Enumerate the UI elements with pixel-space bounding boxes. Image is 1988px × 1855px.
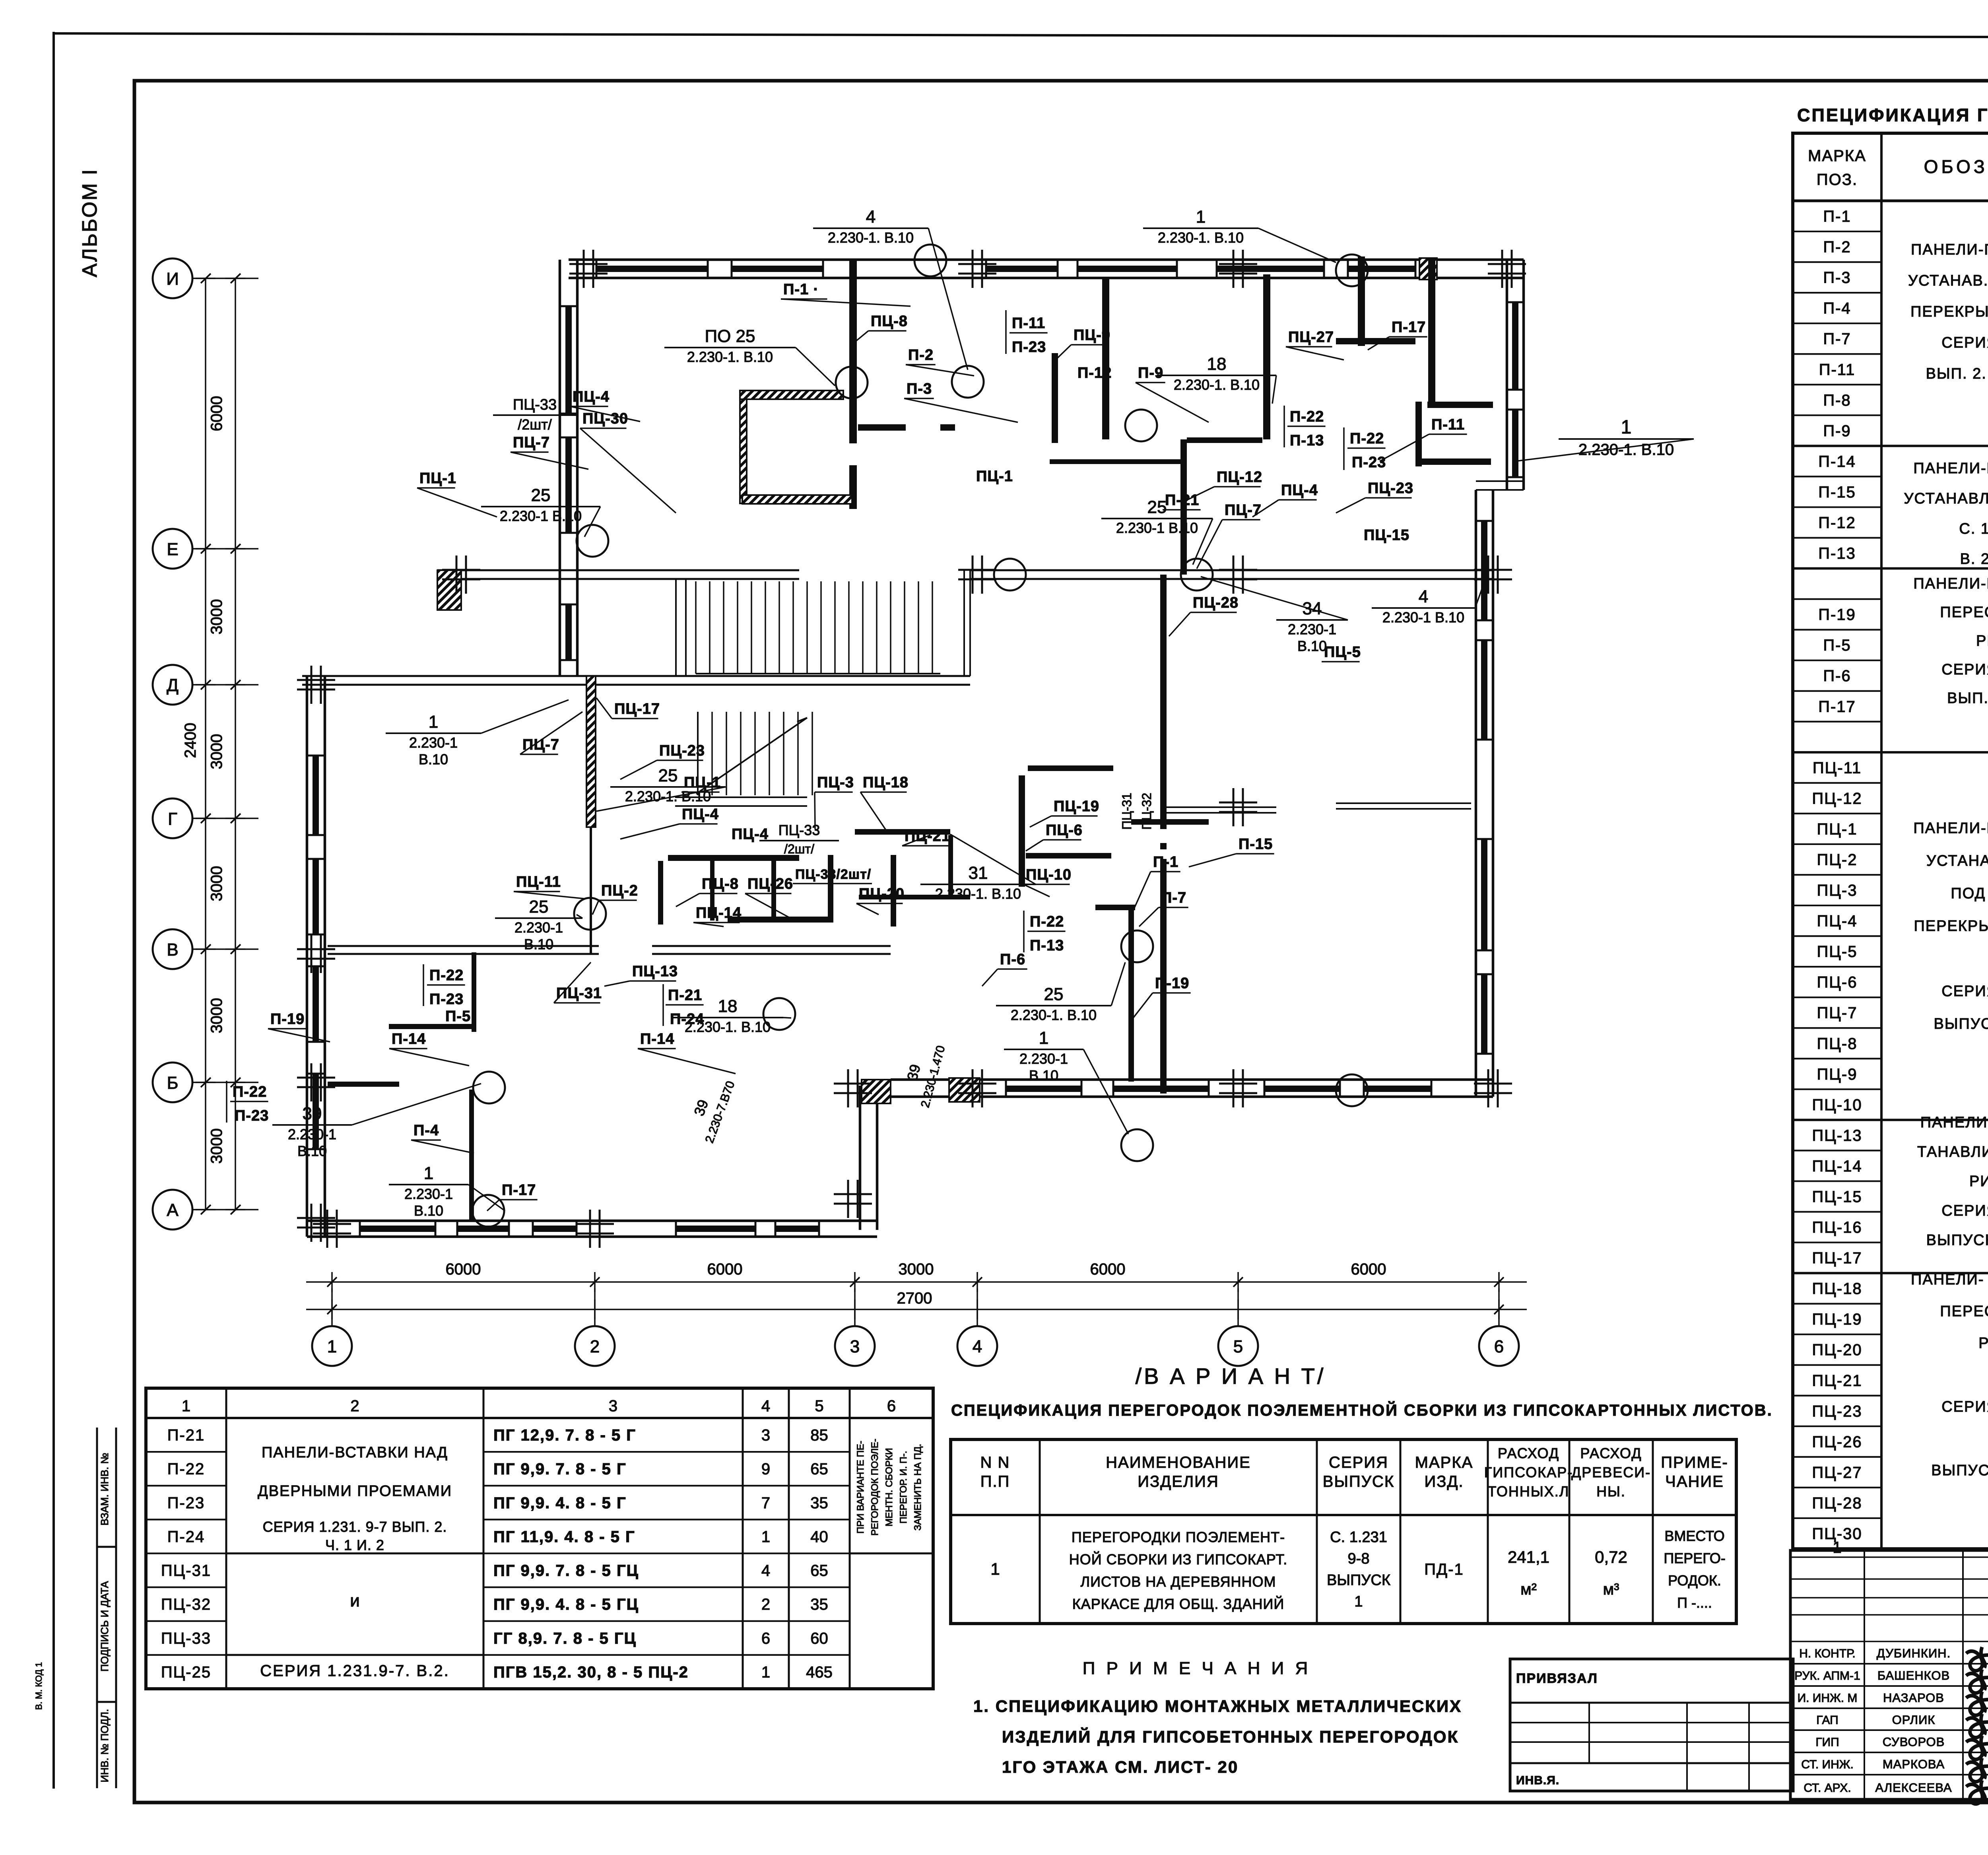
- svg-text:СПЕЦИФИКАЦИЯ ПЕРЕГОРОДОК ПОЭЛЕ: СПЕЦИФИКАЦИЯ ПЕРЕГОРОДОК ПОЭЛЕМЕНТНОЙ СБ…: [951, 1401, 1773, 1419]
- svg-text:ПЦ-21: ПЦ-21: [1812, 1372, 1862, 1389]
- svg-text:ПЦ-1: ПЦ-1: [976, 468, 1013, 485]
- svg-text:ПЦ-1: ПЦ-1: [1817, 820, 1858, 838]
- svg-text:4: 4: [973, 1337, 982, 1356]
- svg-text:ПЦ-4: ПЦ-4: [1817, 913, 1858, 930]
- svg-text:СЕРИЯ 1.231.9-7. В.2.: СЕРИЯ 1.231.9-7. В.2.: [260, 1662, 449, 1680]
- svg-text:СЕРИЯ 1.231. 9-7: СЕРИЯ 1.231. 9-7: [1941, 1399, 1988, 1415]
- svg-text:6000: 6000: [208, 396, 225, 431]
- svg-text:ВМЕСТО: ВМЕСТО: [1664, 1528, 1724, 1544]
- svg-text:ИЗДЕЛИЙ ДЛЯ ГИПСОБЕТОННЫХ ПЕРЕ: ИЗДЕЛИЙ ДЛЯ ГИПСОБЕТОННЫХ ПЕРЕГОРОДОК: [1002, 1727, 1459, 1746]
- svg-text:2700: 2700: [897, 1290, 932, 1307]
- svg-text:2.230-1. В.10: 2.230-1. В.10: [828, 229, 914, 246]
- svg-text:18: 18: [1207, 354, 1227, 374]
- svg-text:ПЦ-23: ПЦ-23: [1368, 480, 1413, 497]
- C-room hatched walls: [740, 390, 843, 399]
- svg-text:1: 1: [1833, 1539, 1841, 1556]
- svg-text:П-13: П-13: [1818, 545, 1856, 562]
- svg-text:В. 2 Ч. 1 И 2.: В. 2 Ч. 1 И 2.: [1960, 551, 1988, 567]
- svg-text:ДВЕРНЫМИ ПРОЕМАМИ: ДВЕРНЫМИ ПРОЕМАМИ: [258, 1483, 452, 1500]
- svg-text:ПГВ 15,2. 30, 8 - 5 ПЦ-2: ПГВ 15,2. 30, 8 - 5 ПЦ-2: [493, 1663, 689, 1681]
- svg-text:2.230-1: 2.230-1: [288, 1126, 336, 1142]
- svg-text:В.10: В.10: [419, 751, 448, 767]
- svg-text:ВЗАМ. ИНВ. №: ВЗАМ. ИНВ. №: [99, 1453, 111, 1526]
- svg-text:П-22: П-22: [1350, 430, 1384, 447]
- left dimension labels: [182, 396, 225, 1164]
- svg-text:П-13: П-13: [1290, 432, 1324, 449]
- svg-text:ПРИВЯЗАЛ: ПРИВЯЗАЛ: [1516, 1671, 1598, 1686]
- bottom dimension lines: [306, 1281, 1527, 1283]
- main central wall vertical: [1160, 575, 1167, 829]
- svg-text:4: 4: [761, 1562, 770, 1579]
- svg-text:ПЦ-14: ПЦ-14: [1812, 1158, 1862, 1175]
- svg-text:АЛЬБОМ I: АЛЬБОМ I: [78, 168, 101, 277]
- svg-text:ПОДПИСЬ И ДАТА: ПОДПИСЬ И ДАТА: [99, 1581, 111, 1672]
- svg-text:ПГ 9,9. 4. 8 - 5 ГЦ: ПГ 9,9. 4. 8 - 5 ГЦ: [493, 1596, 639, 1613]
- svg-text:П-22: П-22: [429, 967, 464, 984]
- svg-text:ПЦ-25: ПЦ-25: [161, 1663, 211, 1681]
- svg-text:ПЦ-7: ПЦ-7: [522, 736, 559, 753]
- spec obozn section B: [1904, 460, 1988, 567]
- svg-text:35: 35: [810, 1596, 828, 1613]
- svg-text:ПЦ-33: ПЦ-33: [513, 396, 557, 413]
- svg-text:ПЦ-18: ПЦ-18: [1812, 1280, 1862, 1298]
- left table rows text: [161, 1427, 833, 1681]
- svg-text:6: 6: [761, 1630, 770, 1647]
- svg-text:В.10: В.10: [297, 1143, 327, 1159]
- svg-text:ПЦ-10: ПЦ-10: [1026, 866, 1072, 883]
- svg-text:П-23: П-23: [1012, 339, 1046, 355]
- svg-text:ПЦ-10: ПЦ-10: [1812, 1096, 1862, 1114]
- svg-text:СТ. АРХ.: СТ. АРХ.: [1804, 1781, 1851, 1795]
- svg-text:ЧАНИЕ: ЧАНИЕ: [1665, 1473, 1724, 1490]
- svg-text:3000: 3000: [208, 599, 225, 635]
- svg-text:ГИПСОКАР-: ГИПСОКАР-: [1484, 1464, 1573, 1480]
- svg-text:2400: 2400: [182, 723, 199, 758]
- svg-text:34: 34: [1303, 599, 1322, 618]
- svg-text:ПРИ ВАРИАНТЕ ПЕ-: ПРИ ВАРИАНТЕ ПЕ-: [855, 1441, 866, 1534]
- svg-text:П Р И М Е Ч А Н И Я: П Р И М Е Ч А Н И Я: [1083, 1659, 1311, 1678]
- svg-text:ЗАМЕНИТЬ НА ПД.: ЗАМЕНИТЬ НА ПД.: [912, 1444, 923, 1531]
- svg-text:СПЕЦИФИКАЦИЯ ГИПСОБЕТОННЫХ: СПЕЦИФИКАЦИЯ ГИПСОБЕТОННЫХ ПАНЕЛЕЙ ПЕРЕГ…: [1797, 105, 1988, 125]
- svg-text:ВЫПУСК 2 Ч. 1 И 2.: ВЫПУСК 2 Ч. 1 И 2.: [1934, 1016, 1988, 1032]
- svg-text:Д: Д: [167, 676, 179, 695]
- svg-text:П-9: П-9: [1138, 365, 1163, 381]
- svg-text:1: 1: [429, 712, 438, 732]
- svg-text:ПЦ-15: ПЦ-15: [1812, 1188, 1862, 1206]
- bottom-left wall: [307, 1220, 877, 1222]
- svg-text:П-22: П-22: [1290, 408, 1324, 425]
- svg-text:П-5: П-5: [445, 1008, 471, 1025]
- svg-text:ПЦ-30: ПЦ-30: [582, 410, 628, 427]
- svg-text:П-23: П-23: [429, 991, 464, 1008]
- svg-text:ПЦ-32: ПЦ-32: [1140, 793, 1154, 830]
- svg-text:ПАНЕЛИ-ПЕРЕГОРОДОК: ПАНЕЛИ-ПЕРЕГОРОДОК: [1913, 460, 1988, 477]
- svg-text:1: 1: [1354, 1593, 1363, 1610]
- svg-text:П-19: П-19: [270, 1011, 305, 1028]
- svg-text:/В А Р И А Н Т/: /В А Р И А Н Т/: [1136, 1364, 1326, 1389]
- svg-text:6: 6: [887, 1397, 896, 1415]
- svg-text:3: 3: [609, 1397, 617, 1415]
- svg-text:П-23: П-23: [167, 1494, 205, 1512]
- svg-text:ПЦ-16: ПЦ-16: [1812, 1219, 1862, 1236]
- svg-text:/2шт/: /2шт/: [784, 842, 814, 856]
- svg-text:В: В: [167, 940, 178, 960]
- svg-text:ПЦ-15: ПЦ-15: [1364, 527, 1409, 544]
- svg-text:П-4: П-4: [414, 1122, 439, 1139]
- svg-text:В.10: В.10: [1029, 1067, 1058, 1084]
- svg-text:ПЦ-3: ПЦ-3: [1817, 882, 1858, 899]
- svg-text:2.230-1: 2.230-1: [409, 734, 458, 751]
- spec obozn section A: [1908, 241, 1988, 382]
- svg-text:ПЦ-13: ПЦ-13: [1812, 1127, 1862, 1144]
- svg-text:ОБОЗНАЧЕНИЕ: ОБОЗНАЧЕНИЕ: [1924, 156, 1988, 177]
- svg-text:П-11: П-11: [1012, 315, 1045, 332]
- svg-text:ГИП: ГИП: [1815, 1736, 1839, 1749]
- svg-text:П-6: П-6: [1000, 951, 1025, 968]
- partition bars top-mid: [1052, 353, 1058, 443]
- svg-text:2: 2: [761, 1596, 770, 1613]
- svg-text:6000: 6000: [707, 1261, 743, 1278]
- svg-text:ПЦ-31: ПЦ-31: [161, 1562, 211, 1579]
- svg-text:МАРКОВА: МАРКОВА: [1883, 1757, 1945, 1771]
- E-row wall left part: [437, 569, 799, 571]
- svg-text:ПЦ-1: ПЦ-1: [684, 774, 721, 791]
- svg-text:РИГЕЛЬ: РИГЕЛЬ: [1978, 1335, 1988, 1352]
- svg-text:6000: 6000: [446, 1261, 481, 1278]
- svg-text:РУК. АПМ-1: РУК. АПМ-1: [1794, 1669, 1860, 1682]
- svg-text:2.230-1 В.10: 2.230-1 В.10: [500, 508, 582, 524]
- svg-text:25: 25: [1147, 497, 1167, 517]
- svg-text:П-13: П-13: [1030, 937, 1064, 954]
- svg-text:2.230-1. В.10: 2.230-1. В.10: [1174, 377, 1260, 393]
- svg-text:ПЦ-31: ПЦ-31: [1120, 793, 1134, 830]
- svg-text:40: 40: [810, 1528, 828, 1546]
- svg-text:РИГЕЛЬ.: РИГЕЛЬ.: [1976, 633, 1988, 649]
- svg-text:П-1: П-1: [1153, 854, 1178, 870]
- outer border left: [52, 32, 55, 1789]
- svg-text:1: 1: [182, 1397, 190, 1415]
- svg-text:В. М. КОД 1: В. М. КОД 1: [34, 1662, 44, 1710]
- svg-text:ПЦ-14: ПЦ-14: [696, 905, 742, 921]
- west inner wall of top block continuation: [559, 575, 561, 676]
- svg-text:П-1 ·: П-1 ·: [783, 281, 819, 298]
- svg-text:м²: м²: [1520, 1581, 1537, 1598]
- sanitary block bars: [668, 855, 799, 861]
- svg-text:Б: Б: [167, 1073, 179, 1093]
- svg-text:ПЦ-8: ПЦ-8: [871, 313, 908, 330]
- svg-text:ПЦ-12: ПЦ-12: [1217, 469, 1262, 486]
- svg-text:ПЦ-5: ПЦ-5: [1817, 943, 1858, 961]
- svg-text:П-2: П-2: [1823, 239, 1851, 256]
- plan labels mid-left: [268, 698, 1036, 1219]
- svg-text:ПЦ-33/2шт/: ПЦ-33/2шт/: [795, 867, 871, 882]
- right wall lower: [1475, 490, 1477, 1097]
- svg-text:1: 1: [761, 1528, 770, 1546]
- top block right wall upper: [1506, 260, 1508, 490]
- E-row wall right part: [970, 569, 1493, 571]
- svg-text:ПЦ-7: ПЦ-7: [1817, 1004, 1858, 1022]
- bottom dimension labels: [446, 1261, 1386, 1307]
- svg-text:П-3: П-3: [1823, 269, 1851, 287]
- svg-text:25: 25: [529, 897, 549, 917]
- svg-text:ИНВ. № ПОДЛ.: ИНВ. № ПОДЛ.: [99, 1709, 111, 1783]
- svg-text:СУВОРОВ: СУВОРОВ: [1883, 1735, 1945, 1749]
- svg-text:ПЦ-18: ПЦ-18: [863, 774, 909, 791]
- svg-text:2.230-1: 2.230-1: [1019, 1051, 1068, 1067]
- svg-text:ПЕРЕКРЫТИЯ НЭТ-3,3М: ПЕРЕКРЫТИЯ НЭТ-3,3М: [1914, 918, 1988, 934]
- svg-text:П-1: П-1: [1823, 208, 1851, 225]
- svg-text:ПОД ПЛИТАМИ: ПОД ПЛИТАМИ: [1951, 885, 1988, 902]
- svg-text:ПЦ-2: ПЦ-2: [1817, 851, 1858, 868]
- C-room side bars: [858, 424, 906, 431]
- svg-text:1: 1: [1039, 1028, 1048, 1048]
- partition bars top-left block: [849, 260, 857, 443]
- svg-text:/2шт/: /2шт/: [518, 416, 551, 433]
- svg-text:3: 3: [850, 1337, 860, 1356]
- svg-text:СЕРИЯ 1.231. 9-7: СЕРИЯ 1.231. 9-7: [1941, 334, 1988, 351]
- svg-text:2: 2: [590, 1337, 600, 1356]
- stair lower walls: [675, 796, 807, 798]
- svg-text:4: 4: [761, 1397, 770, 1415]
- grid axis circles bottom: [312, 1288, 1519, 1366]
- svg-text:СЕРИЯ 1.231. 9-7 ВЫП. 2.: СЕРИЯ 1.231. 9-7 ВЫП. 2.: [263, 1519, 447, 1535]
- svg-text:И: И: [166, 269, 179, 289]
- left dimension lines: [205, 278, 206, 1210]
- svg-text:ПЕРЕКРЫТИЯ НЭП-3,3М.: ПЕРЕКРЫТИЯ НЭП-3,3М.: [1910, 303, 1988, 320]
- svg-text:ПОЗ.: ПОЗ.: [1817, 171, 1858, 188]
- svg-text:П-19: П-19: [1155, 975, 1189, 992]
- B-row wall right segment: [652, 945, 891, 947]
- svg-text:ПЦ-17: ПЦ-17: [1812, 1249, 1862, 1267]
- svg-text:31: 31: [969, 863, 988, 883]
- svg-text:ЛИСТОВ НА ДЕРЕВЯННОМ: ЛИСТОВ НА ДЕРЕВЯННОМ: [1081, 1573, 1276, 1590]
- svg-text:ПГ 9,9. 4. 8 - 5 Г: ПГ 9,9. 4. 8 - 5 Г: [493, 1494, 627, 1512]
- stamp signature table: [1790, 1550, 1988, 1799]
- svg-text:ИНВ.Я.: ИНВ.Я.: [1516, 1774, 1559, 1787]
- spec obozn section E: [1917, 1114, 1988, 1249]
- axis ticks on walls: [583, 250, 585, 288]
- svg-text:В.10: В.10: [1297, 638, 1327, 654]
- svg-text:ПЦ-11: ПЦ-11: [516, 874, 561, 890]
- spec table rows text: [1812, 207, 1988, 1543]
- svg-text:ПАНЕЛИ-ВСТАВКИ УС-: ПАНЕЛИ-ВСТАВКИ УС-: [1920, 1114, 1988, 1131]
- svg-text:ПЦ-23: ПЦ-23: [1812, 1402, 1862, 1420]
- svg-text:СЕРИЯ 1.231. 9-7: СЕРИЯ 1.231. 9-7: [1941, 983, 1988, 1000]
- svg-text:ПЦ-32: ПЦ-32: [161, 1596, 211, 1613]
- svg-text:39: 39: [303, 1104, 322, 1123]
- svg-text:ПЦ-6: ПЦ-6: [1817, 974, 1858, 991]
- svg-text:В.10: В.10: [414, 1202, 443, 1219]
- svg-text:ПЦ-7: ПЦ-7: [1225, 502, 1262, 519]
- svg-text:ПЦ-33: ПЦ-33: [779, 822, 820, 838]
- svg-text:Н. КОНТР.: Н. КОНТР.: [1799, 1647, 1855, 1660]
- svg-text:18: 18: [718, 996, 738, 1016]
- svg-text:ПЕРЕГО-: ПЕРЕГО-: [1664, 1550, 1725, 1566]
- svg-text:ПЦ-27: ПЦ-27: [1288, 329, 1334, 346]
- svg-text:3000: 3000: [208, 866, 225, 901]
- svg-text:ПЦ-27: ПЦ-27: [1812, 1464, 1862, 1481]
- svg-text:П-21: П-21: [1165, 492, 1199, 509]
- svg-text:П-8: П-8: [1823, 392, 1851, 409]
- svg-text:1: 1: [990, 1560, 1000, 1578]
- svg-text:35: 35: [810, 1494, 828, 1512]
- svg-text:МАРКА: МАРКА: [1415, 1454, 1474, 1471]
- svg-text:П-22: П-22: [1030, 913, 1064, 930]
- svg-text:С. 1.231: С. 1.231: [1330, 1529, 1387, 1546]
- svg-text:ВЫП. 2. Ч. 1 И 2: ВЫП. 2. Ч. 1 И 2: [1947, 690, 1988, 707]
- stair arrow: [700, 718, 807, 791]
- svg-text:ТОННЫХ.Л: ТОННЫХ.Л: [1488, 1483, 1570, 1500]
- spec obozn section D: [1913, 820, 1988, 1032]
- D-row wall: [302, 675, 970, 677]
- svg-text:ПЦ-6: ПЦ-6: [1046, 822, 1083, 839]
- svg-text:2.230-1: 2.230-1: [404, 1186, 453, 1202]
- svg-text:П-14: П-14: [640, 1031, 674, 1047]
- svg-text:РОДОК.: РОДОК.: [1668, 1572, 1721, 1589]
- spec table grid: [1793, 133, 1988, 1549]
- svg-text:465: 465: [806, 1663, 833, 1681]
- svg-text:2.230-1 В.10: 2.230-1 В.10: [1116, 520, 1198, 536]
- svg-text:9: 9: [761, 1461, 770, 1478]
- svg-text:241,1: 241,1: [1508, 1548, 1549, 1566]
- top wall: [569, 258, 1524, 261]
- svg-text:25: 25: [531, 486, 551, 505]
- top block left wall: [559, 260, 561, 575]
- svg-text:П-11: П-11: [1819, 361, 1856, 379]
- svg-text:5: 5: [815, 1397, 823, 1415]
- svg-text:КАРКАСЕ ДЛЯ ОБЩ. ЗДАНИЙ: КАРКАСЕ ДЛЯ ОБЩ. ЗДАНИЙ: [1072, 1595, 1284, 1612]
- svg-text:НАИМЕНОВАНИЕ: НАИМЕНОВАНИЕ: [1106, 1454, 1251, 1471]
- grid axis circles left: [153, 258, 258, 1230]
- svg-text:2.230-1 В.10: 2.230-1 В.10: [1382, 609, 1464, 625]
- left block west wall: [306, 676, 309, 1237]
- svg-text:СТ. ИНЖ.: СТ. ИНЖ.: [1801, 1758, 1854, 1771]
- svg-text:НОЙ СБОРКИ ИЗ ГИПСОКАРТ.: НОЙ СБОРКИ ИЗ ГИПСОКАРТ.: [1069, 1551, 1287, 1568]
- svg-text:ПЦ-20: ПЦ-20: [1812, 1341, 1862, 1359]
- svg-text:N N: N N: [980, 1454, 1010, 1471]
- svg-text:ПО 25: ПО 25: [705, 326, 755, 346]
- svg-text:м³: м³: [1603, 1581, 1619, 1598]
- svg-text:2.230-1. В.10: 2.230-1. В.10: [1158, 229, 1244, 246]
- left table obozn merged: [258, 1444, 452, 1680]
- svg-text:ПЦ-8: ПЦ-8: [702, 876, 739, 892]
- svg-text:П-4: П-4: [1823, 300, 1851, 317]
- variant table grid: [951, 1439, 1736, 1624]
- lower mid partition P-19: [1128, 907, 1134, 1082]
- svg-text:ВЫПУСК: ВЫПУСК: [1323, 1473, 1394, 1490]
- svg-text:ПАНЕЛИ-ВСТАВКИ НАД: ПАНЕЛИ-ВСТАВКИ НАД: [262, 1444, 448, 1461]
- svg-text:ВЫПУСК: ВЫПУСК: [1327, 1572, 1390, 1589]
- B-row wall: [328, 945, 599, 947]
- svg-text:0,72: 0,72: [1595, 1548, 1627, 1566]
- spec obozn section C: [1913, 575, 1988, 707]
- svg-text:2.230-1: 2.230-1: [514, 919, 563, 936]
- svg-text:ПГ 12,9. 7. 8 - 5 Г: ПГ 12,9. 7. 8 - 5 Г: [493, 1427, 636, 1444]
- svg-text:25: 25: [1044, 985, 1064, 1004]
- right wall jog: [1476, 480, 1524, 482]
- svg-text:П-24: П-24: [167, 1528, 205, 1546]
- svg-text:П-22: П-22: [167, 1461, 205, 1478]
- left attribute strip: [96, 1428, 98, 1788]
- svg-text:ПГ 9,9. 7. 8 - 5 ГЦ: ПГ 9,9. 7. 8 - 5 ГЦ: [493, 1562, 639, 1579]
- svg-text:МЕНТН. СБОРКИ: МЕНТН. СБОРКИ: [884, 1448, 895, 1526]
- svg-text:П-7: П-7: [1161, 890, 1186, 906]
- svg-text:ИЗДЕЛИЯ: ИЗДЕЛИЯ: [1138, 1473, 1219, 1490]
- svg-text:ПЦ-26: ПЦ-26: [747, 876, 793, 892]
- variant header text: [980, 1445, 1728, 1500]
- svg-text:ПАНЕЛИ-ПЕРЕГОРОДОК: ПАНЕЛИ-ПЕРЕГОРОДОК: [1913, 820, 1988, 837]
- svg-text:4: 4: [866, 207, 876, 227]
- svg-text:ПЦ-5: ПЦ-5: [1324, 644, 1361, 660]
- leader circles: [914, 245, 946, 276]
- svg-text:ГГ 8,9. 7. 8 - 5 ГЦ: ГГ 8,9. 7. 8 - 5 ГЦ: [493, 1630, 637, 1647]
- plan labels lower-left interior: [227, 1081, 269, 1124]
- left table grid: [146, 1388, 933, 1689]
- svg-text:2.230-1. В.10: 2.230-1. В.10: [935, 886, 1021, 902]
- stamp left subtable: [1510, 1659, 1793, 1791]
- lower-left partitions: [469, 1090, 474, 1221]
- svg-text:5: 5: [1233, 1337, 1243, 1356]
- svg-text:ПЦ-23: ПЦ-23: [659, 742, 705, 759]
- svg-text:П-2: П-2: [908, 347, 934, 363]
- signatures scribbles: [1966, 1647, 1988, 1804]
- svg-text:ДРЕВЕСИ-: ДРЕВЕСИ-: [1571, 1464, 1651, 1480]
- svg-text:П-12: П-12: [1077, 365, 1112, 381]
- svg-text:1: 1: [1196, 207, 1206, 227]
- svg-text:АЛЕКСЕЕВА: АЛЕКСЕЕВА: [1875, 1781, 1952, 1795]
- svg-text:ПЦ-19: ПЦ-19: [1054, 798, 1099, 815]
- svg-text:П-9: П-9: [1823, 422, 1851, 440]
- svg-text:ВЫП. 2. ЧАСТЬ 1 И 2.: ВЫП. 2. ЧАСТЬ 1 И 2.: [1926, 365, 1988, 382]
- P-17 room bars: [1358, 256, 1365, 346]
- svg-text:НЫ.: НЫ.: [1596, 1483, 1626, 1500]
- svg-text:П-7: П-7: [1823, 330, 1851, 348]
- svg-text:3: 3: [761, 1427, 770, 1444]
- svg-text:3000: 3000: [208, 734, 225, 769]
- svg-text:1: 1: [424, 1164, 433, 1183]
- step corner wall: [859, 1086, 862, 1230]
- svg-text:П-21: П-21: [668, 987, 702, 1004]
- svg-text:УСТАНАВ. ПОД ПЛИТАМИ: УСТАНАВ. ПОД ПЛИТАМИ: [1908, 272, 1988, 289]
- svg-text:ДУБИНКИН.: ДУБИНКИН.: [1877, 1646, 1951, 1660]
- svg-text:ПРИМЕ-: ПРИМЕ-: [1661, 1454, 1728, 1471]
- plan labels top-left: [417, 281, 1694, 569]
- svg-text:П-21: П-21: [167, 1427, 205, 1444]
- svg-text:П-12: П-12: [1818, 514, 1856, 532]
- stair flight lower: [698, 712, 812, 795]
- top wall pier hatch: [1419, 258, 1437, 280]
- svg-text:ПЦ-9: ПЦ-9: [1074, 327, 1110, 344]
- svg-text:2.230-1: 2.230-1: [1288, 621, 1336, 637]
- svg-text:ПАНЕЛИ- ПЕРЕГОРОДОК: ПАНЕЛИ- ПЕРЕГОРОДОК: [1911, 1271, 1988, 1288]
- plan labels group A top: [813, 207, 1336, 370]
- svg-text:ПАНЕЛИ-ПЕРЕГОРОДОК: ПАНЕЛИ-ПЕРЕГОРОДОК: [1913, 575, 1988, 592]
- svg-text:ПЦ-3: ПЦ-3: [817, 774, 854, 791]
- plan labels mid-right: [672, 527, 1487, 1134]
- D-row hatched pier wall: [586, 676, 596, 827]
- svg-text:СЕРИЯ 1.231. 9-7: СЕРИЯ 1.231. 9-7: [1941, 1202, 1988, 1219]
- svg-text:А: А: [167, 1200, 179, 1220]
- mid partitions: [1019, 775, 1025, 887]
- svg-text:1: 1: [761, 1663, 770, 1681]
- svg-text:П-23: П-23: [1352, 454, 1386, 471]
- svg-text:П-22: П-22: [233, 1084, 267, 1100]
- svg-text:ПЦ-13: ПЦ-13: [632, 963, 678, 980]
- svg-text:ПЦ-17: ПЦ-17: [614, 701, 660, 717]
- P-15 wall: [1165, 806, 1276, 808]
- E-row wall pier hatch: [437, 570, 461, 610]
- svg-text:И. ИНЖ. М: И. ИНЖ. М: [1798, 1692, 1858, 1705]
